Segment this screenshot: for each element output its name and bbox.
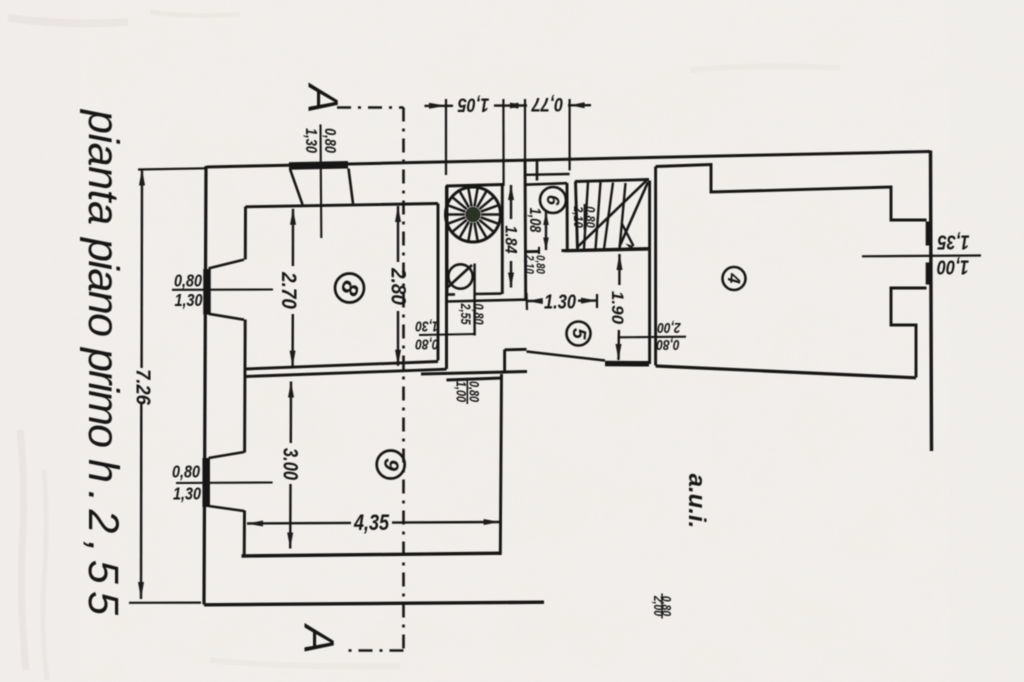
wire room4 south wall (656, 366, 916, 378)
svg-text:0,80: 0,80 (172, 462, 200, 482)
svg-text:0,80: 0,80 (656, 337, 680, 354)
small door label 0,80/1,00 (rotated 90) (453, 379, 481, 404)
svg-text:7.26: 7.26 (131, 369, 153, 405)
svg-text:1,05: 1,05 (457, 94, 490, 116)
svg-text:2,10: 2,10 (522, 254, 535, 274)
door jamb tick room6 (538, 247, 540, 254)
symbol circle-slash (448, 264, 472, 288)
svg-text:A: A (295, 622, 343, 654)
wire right exterior wall (931, 151, 932, 452)
wire shaft / room6 left wall (524, 161, 528, 302)
extension lines (445, 99, 447, 175)
dimension 1.90 (608, 254, 627, 360)
room number 8 (334, 274, 364, 303)
dimension 3.00 (279, 382, 302, 549)
spiral staircase (446, 187, 501, 242)
wire bottom boundary (204, 602, 544, 605)
svg-text:0,80: 0,80 (174, 271, 202, 291)
dimension chain 1,05 / 0,77 (425, 94, 592, 186)
section line A-A (dash-dot) (337, 108, 404, 651)
wire room8 right wall (double) (437, 204, 440, 361)
svg-text:2,00: 2,00 (657, 320, 682, 337)
wire room6 walls (525, 183, 567, 185)
wire spiral-stair room walls (446, 186, 449, 295)
svg-text:pianta: pianta (79, 108, 127, 225)
window W-left-lower splays (209, 452, 245, 458)
faint scan smudges (8, 12, 840, 680)
svg-text:piano: piano (79, 236, 127, 337)
dimension 1.30 corridor (527, 290, 598, 313)
window W-top centerline (319, 125, 322, 239)
svg-text:3.00: 3.00 (279, 448, 302, 480)
room number 9 (377, 451, 405, 479)
window W-left-upper thick bar (203, 269, 211, 315)
staircase arrowhead (626, 244, 634, 250)
room number 5 (567, 322, 591, 346)
window W-left-upper splays (209, 260, 244, 269)
svg-text:0,80: 0,80 (321, 128, 339, 153)
label 0,80/2,10 on stairs (rotated 90) (571, 205, 598, 228)
svg-text:1,30: 1,30 (415, 318, 439, 335)
dimension 2.80 (386, 206, 409, 366)
entrance door threshold (526, 173, 570, 176)
window W-top in top wall (thick sill bar) (289, 165, 348, 166)
svg-text:1.30: 1.30 (544, 290, 576, 313)
wire room9 bottom wall (242, 553, 502, 556)
svg-text:1,30: 1,30 (174, 291, 202, 311)
dimension 1,08 (526, 208, 549, 251)
svg-text:1.84: 1.84 (501, 225, 519, 253)
wire left exterior wall (204, 166, 206, 605)
svg-text:2,55: 2,55 (458, 303, 473, 325)
svg-text:primo: primo (79, 346, 127, 448)
title: pianta piano primo h.2,55 (rotated 90) (79, 108, 127, 616)
dimension 7.26 (129, 168, 206, 603)
window W-left-lower centerline / fraction bar (176, 481, 273, 484)
svg-text:2,00: 2,00 (651, 595, 665, 617)
svg-text:2.80: 2.80 (386, 267, 409, 305)
door leaf stair-room (473, 264, 475, 336)
svg-text:1,08: 1,08 (526, 208, 543, 233)
svg-text:1,00: 1,00 (453, 381, 468, 402)
svg-text:1.90: 1.90 (608, 291, 627, 325)
dimension 4,35 (247, 511, 500, 535)
window W-top splays (290, 169, 303, 205)
wire room4 left wall (double) (648, 181, 651, 365)
wire room8 top inner wall (246, 204, 439, 207)
svg-text:0,80: 0,80 (415, 336, 439, 353)
svg-text:a.u.i.: a.u.i. (683, 474, 710, 529)
wire left wall inner face (244, 207, 247, 260)
room number 4 (723, 267, 746, 290)
dimension 2.70 (277, 209, 300, 367)
svg-text:1,30: 1,30 (173, 484, 201, 504)
window W-right bars (926, 222, 932, 246)
window W-left-lower thick bar (202, 458, 210, 507)
staircase (straight run) frame (576, 182, 578, 250)
staircase going diagonals (577, 181, 647, 248)
svg-text:4,35: 4,35 (353, 511, 390, 535)
svg-text:0,77: 0,77 (531, 94, 564, 116)
svg-text:2.70: 2.70 (277, 271, 300, 309)
entrance door hinge tick (536, 161, 539, 181)
svg-text:1,00: 1,00 (937, 256, 969, 279)
wire top exterior wall (207, 152, 931, 168)
dimension 1.84 (501, 185, 519, 288)
wire room5 south wall (527, 352, 606, 361)
svg-text:1,30: 1,30 (302, 128, 320, 153)
room number 6 (540, 187, 566, 213)
svg-text:1,35: 1,35 (937, 231, 970, 254)
wire room4 top and right profile (656, 165, 927, 221)
window W-right dimension line (862, 254, 981, 257)
staircase treads (584, 182, 588, 249)
door label 0,80/2,00 right (rotated 180) (620, 320, 686, 354)
window W-left-upper centerline / fraction bar (172, 288, 273, 290)
label 0,80/1,30 top window (rotated 90) (302, 128, 339, 153)
svg-text:4: 4 (724, 272, 745, 285)
wire step wall room5 west (503, 350, 506, 374)
svg-text:A: A (299, 82, 347, 114)
wire room8/room9 dividing wall (245, 362, 438, 370)
small door label 0,80/2,55 (rotated 90) (458, 303, 486, 325)
wire room9 right wall (500, 374, 501, 555)
small door label 0,80/2,10 wc (rotated 90) (522, 254, 546, 274)
isolated label 0,80/2,00 bottom (rotated 90) (651, 594, 673, 619)
